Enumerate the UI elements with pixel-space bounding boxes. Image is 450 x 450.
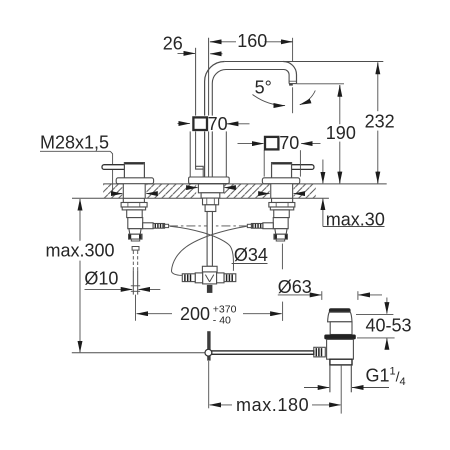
svg-text:- 40: - 40 xyxy=(213,315,231,327)
svg-text:200: 200 xyxy=(180,304,210,324)
svg-text:190: 190 xyxy=(326,123,356,143)
svg-text:G11/4: G11/4 xyxy=(366,366,406,389)
svg-text:+370: +370 xyxy=(213,303,237,315)
svg-text:5°: 5° xyxy=(255,78,272,98)
svg-text:M28x1,5: M28x1,5 xyxy=(40,133,109,153)
svg-text:160: 160 xyxy=(237,31,267,51)
svg-text:max.30: max.30 xyxy=(326,209,385,229)
svg-text:Ø10: Ø10 xyxy=(84,269,118,289)
svg-text:Ø34: Ø34 xyxy=(234,245,268,265)
svg-text:70: 70 xyxy=(279,133,299,153)
svg-text:Ø63: Ø63 xyxy=(278,277,312,297)
svg-text:232: 232 xyxy=(365,111,395,131)
svg-text:70: 70 xyxy=(208,114,228,134)
svg-text:40-53: 40-53 xyxy=(366,315,412,335)
svg-text:max.300: max.300 xyxy=(46,240,115,260)
svg-text:26: 26 xyxy=(163,34,183,54)
svg-text:max.180: max.180 xyxy=(236,395,309,415)
